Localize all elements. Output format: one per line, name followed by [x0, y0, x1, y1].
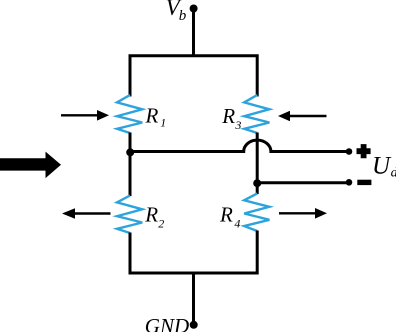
svg-text:R: R: [145, 104, 159, 128]
plus symbol: [357, 144, 371, 158]
node GND terminal: [190, 321, 198, 329]
svg-text:b: b: [179, 8, 187, 24]
label R4: [219, 203, 240, 231]
arrow force on R3: [278, 111, 327, 122]
node A left bridge midpoint: [126, 148, 134, 156]
minus symbol: [357, 180, 371, 185]
label R2: [144, 203, 164, 231]
arrow input force big: [0, 152, 61, 179]
wire top rail: [130, 56, 257, 97]
svg-text:R: R: [144, 203, 158, 227]
node plus terminal: [346, 148, 353, 155]
resistor R1: [117, 95, 142, 133]
node minus terminal: [346, 179, 353, 186]
svg-text:d: d: [391, 166, 396, 181]
wire bottom rail: [130, 231, 257, 274]
svg-text:U: U: [372, 153, 392, 180]
svg-text:4: 4: [234, 216, 240, 230]
svg-text:GND: GND: [145, 314, 189, 332]
wire right branch through hop to node B: [256, 133, 259, 195]
label Ud: [372, 153, 396, 181]
svg-text:1: 1: [160, 116, 166, 130]
svg-text:R: R: [221, 104, 235, 128]
node B right bridge midpoint: [253, 179, 261, 187]
resistor R2: [117, 196, 142, 234]
arrow force on R4: [279, 208, 327, 219]
arrow force on R1: [61, 110, 109, 121]
svg-text:2: 2: [158, 216, 164, 230]
resistor R4: [244, 194, 269, 232]
node Vb terminal: [190, 5, 198, 13]
label R1: [145, 104, 167, 130]
resistor R3: [244, 95, 269, 133]
wire Vb feed: [192, 9, 195, 56]
svg-text:3: 3: [234, 118, 241, 132]
arrow force on R2: [62, 208, 111, 219]
wire GND feed: [192, 273, 195, 325]
wire output minus: [257, 181, 349, 184]
label R3: [221, 104, 241, 132]
label Vb: [166, 0, 187, 24]
wire left branch between R1 and R2: [129, 133, 132, 197]
wire output plus with crossover hop: [130, 140, 349, 151]
svg-text:R: R: [219, 203, 233, 227]
